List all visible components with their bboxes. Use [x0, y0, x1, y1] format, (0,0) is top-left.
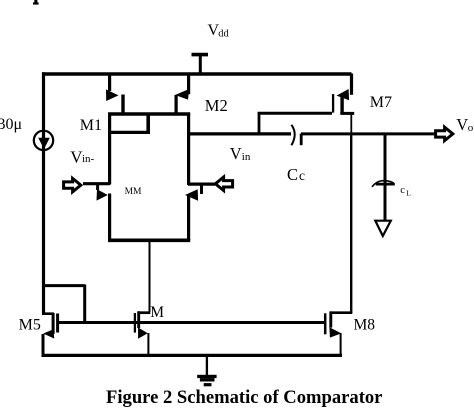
svg-text:V: V: [230, 144, 242, 163]
svg-text:MM: MM: [125, 187, 142, 197]
svg-text:Figure 2 Schematic of Comparat: Figure 2 Schematic of Comparator: [106, 387, 382, 408]
svg-text:in: in: [242, 151, 251, 163]
svg-text:M5: M5: [19, 317, 41, 334]
svg-text:dd: dd: [218, 29, 229, 40]
svg-text:M8: M8: [354, 317, 376, 334]
svg-text:c: c: [299, 168, 305, 183]
svg-text:ou: ou: [468, 122, 474, 134]
svg-text:L: L: [406, 189, 411, 198]
svg-text:C: C: [287, 165, 298, 184]
svg-text:c: c: [400, 185, 405, 196]
svg-text:M1: M1: [80, 117, 102, 134]
svg-text:V: V: [456, 115, 468, 134]
svg-text:M: M: [150, 304, 164, 321]
svg-text:in-: in-: [82, 153, 95, 165]
svg-text:30μ: 30μ: [0, 116, 22, 133]
svg-text:M2: M2: [205, 96, 228, 115]
svg-text:M7: M7: [370, 94, 392, 111]
